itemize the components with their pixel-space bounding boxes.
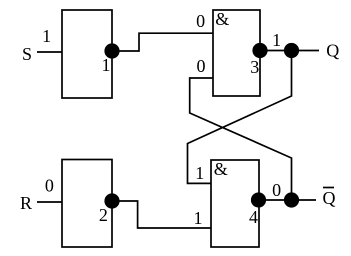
svg-text:1: 1 [42, 26, 51, 46]
svg-text:R: R [20, 193, 32, 213]
svg-text:3: 3 [250, 57, 259, 77]
svg-text:4: 4 [249, 207, 258, 227]
svg-text:Q: Q [323, 188, 336, 208]
svg-text:0: 0 [45, 176, 54, 196]
svg-text:Q: Q [326, 41, 339, 61]
svg-text:2: 2 [99, 205, 108, 225]
svg-text:&: & [215, 9, 229, 29]
svg-text:1: 1 [194, 208, 203, 228]
svg-text:&: & [214, 159, 228, 179]
svg-text:0: 0 [197, 56, 206, 76]
svg-text:0: 0 [196, 11, 205, 31]
svg-text:1: 1 [195, 163, 204, 183]
svg-text:S: S [22, 44, 32, 64]
svg-text:0: 0 [272, 180, 281, 200]
svg-text:1: 1 [102, 55, 111, 75]
svg-text:1: 1 [272, 30, 281, 50]
